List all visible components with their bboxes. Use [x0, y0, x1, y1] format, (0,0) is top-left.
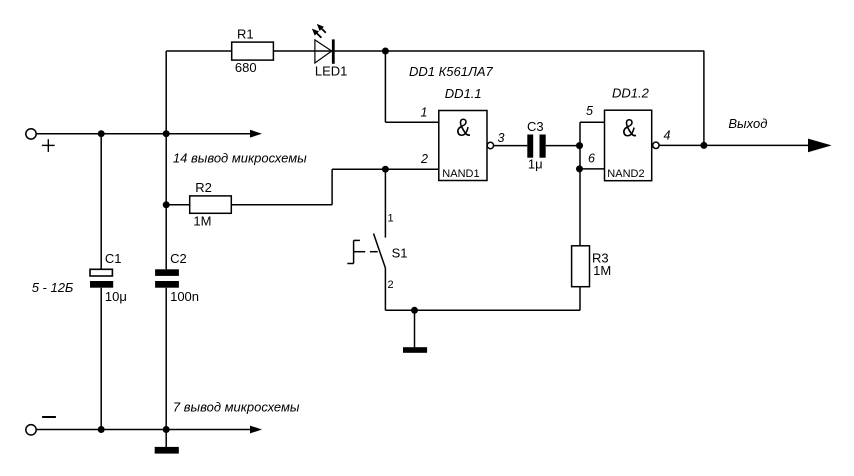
svg-text:C3: C3 [527, 119, 544, 134]
svg-text:3: 3 [498, 131, 505, 145]
svg-text:NAND2: NAND2 [607, 168, 644, 180]
svg-text:5: 5 [586, 104, 593, 118]
svg-text:1μ: 1μ [528, 156, 543, 171]
svg-text:&: & [622, 114, 637, 142]
svg-text:NAND1: NAND1 [442, 168, 479, 180]
svg-text:LED1: LED1 [315, 64, 348, 79]
svg-text:5 - 12Б: 5 - 12Б [32, 280, 74, 295]
svg-text:4: 4 [664, 128, 671, 142]
svg-text:2: 2 [388, 279, 394, 291]
svg-text:DD1.1: DD1.1 [445, 86, 482, 101]
svg-text:1M: 1M [193, 214, 211, 229]
svg-text:R2: R2 [195, 180, 212, 195]
svg-text:6: 6 [588, 151, 595, 165]
svg-text:C2: C2 [170, 251, 187, 266]
svg-text:680: 680 [235, 60, 257, 75]
svg-text:C1: C1 [105, 251, 122, 266]
svg-text:DD1 К561ЛА7: DD1 К561ЛА7 [409, 64, 494, 79]
svg-text:1: 1 [388, 213, 394, 225]
svg-text:R1: R1 [237, 27, 254, 42]
svg-text:S1: S1 [392, 245, 408, 260]
svg-text:10μ: 10μ [105, 289, 127, 304]
svg-text:14 вывод микросхемы: 14 вывод микросхемы [173, 150, 307, 165]
svg-text:1: 1 [421, 106, 428, 120]
svg-text:Выход: Выход [728, 116, 767, 131]
svg-text:DD1.2: DD1.2 [612, 86, 650, 101]
svg-text:2: 2 [420, 152, 428, 166]
svg-text:1M: 1M [593, 263, 611, 278]
svg-text:100n: 100n [170, 289, 199, 304]
svg-text:7 вывод микросхемы: 7 вывод микросхемы [173, 399, 300, 414]
svg-text:&: & [456, 113, 471, 141]
